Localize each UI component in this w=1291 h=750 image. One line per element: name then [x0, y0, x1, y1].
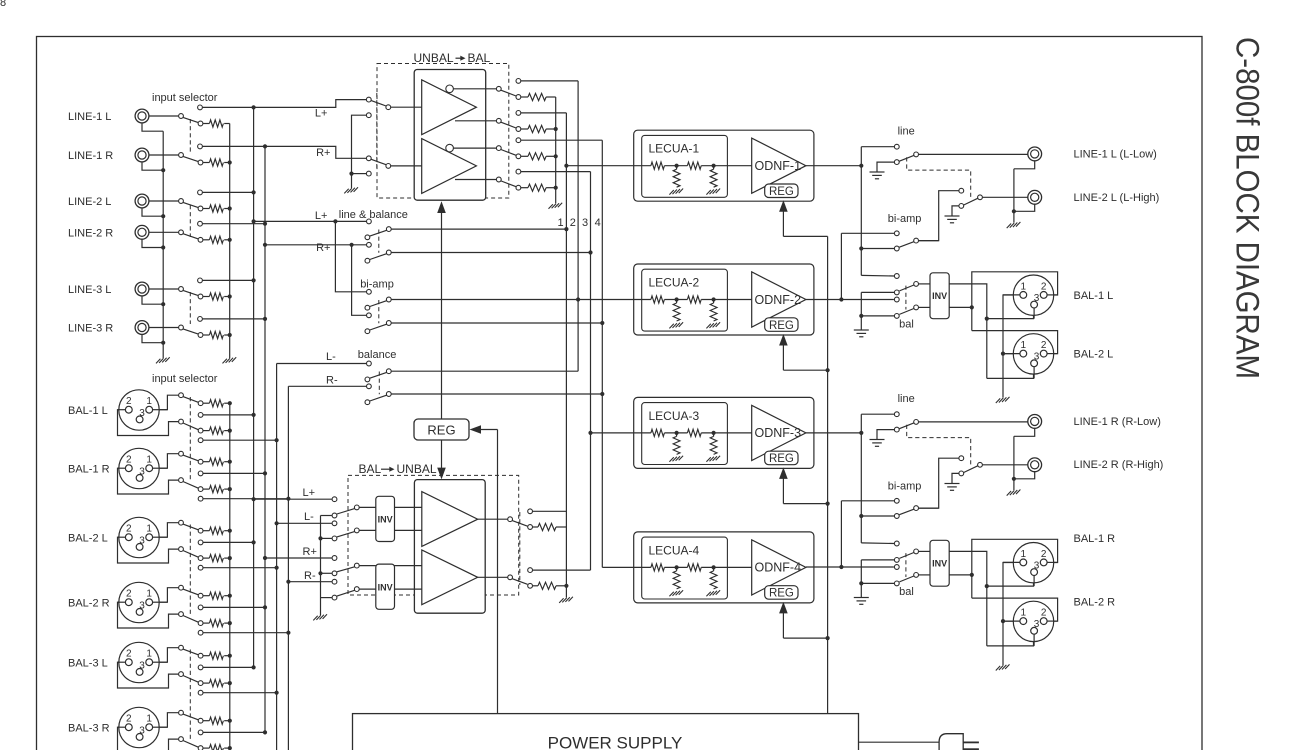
- junction B2U gbus2: [318, 571, 322, 575]
- wire BAL-1 R aux1 to bus: [203, 472, 265, 474]
- wire BAL-3 L res2 to bus: [224, 682, 230, 684]
- junction U2B res bus: [554, 127, 558, 131]
- ground LECUA-4 shunt2: [706, 592, 710, 597]
- junction LECUA-3 shunt1: [675, 431, 679, 435]
- switch outR bal blade2: [899, 576, 914, 582]
- op-amp ODNF-3: [752, 405, 806, 460]
- wire LECUA-1 in segment: [634, 165, 651, 167]
- wire outR jack2 c2 gnd: [952, 473, 959, 483]
- wire LINE-3 R to resistor: [203, 334, 209, 336]
- op-amp B2U triangle1: [422, 492, 478, 547]
- switch balance L pole: [386, 369, 391, 374]
- wire outL biamp c2 stub: [861, 248, 894, 250]
- switch balance L blade: [370, 372, 387, 378]
- wire LINE-3 L sleeve: [142, 296, 163, 304]
- svg-text:3: 3: [139, 725, 145, 736]
- jack LINE-3 R: [135, 321, 149, 335]
- arrow into REG: [470, 425, 482, 434]
- wire B2U outR res to fb1: [556, 585, 566, 587]
- resistor LINE-3 L: [209, 293, 223, 300]
- wire outL pin1 xlr2: [1003, 353, 1020, 355]
- wire U2B in R pole to amp: [391, 165, 422, 167]
- wire BAL-2 R res2: [203, 622, 209, 624]
- dashed box UNBAL-BAL: [377, 64, 509, 199]
- svg-text:LECUA-2: LECUA-2: [649, 276, 700, 290]
- junction outR odnf out: [859, 431, 863, 435]
- junction bal res bus: [228, 401, 232, 405]
- connector XLR1 outR: [1013, 543, 1053, 583]
- connector BAL-3 R: [119, 707, 159, 747]
- wire outR xlr2 pin2 stub: [1047, 620, 1058, 622]
- svg-text:LINE-1 L: LINE-1 L: [68, 111, 111, 123]
- switch LINE-3 R selector pole: [179, 325, 184, 330]
- switch BAL-2 L blade2: [183, 551, 198, 558]
- switch B2U outR blade: [512, 579, 527, 585]
- junction sleeve bus: [161, 341, 165, 345]
- svg-text:UNBAL: UNBAL: [414, 51, 454, 65]
- wire REG to B2U: [441, 440, 443, 468]
- switch BAL-2 R contact1: [198, 593, 203, 598]
- wire U2B out2 to resistor: [521, 128, 528, 130]
- switch BAL-1 L blade2: [183, 423, 198, 430]
- switch LINE-3 R selector blade: [183, 329, 198, 334]
- switch bi-amp R blade: [370, 324, 387, 330]
- wire outL pin1 chain: [1003, 295, 1020, 398]
- resistor LECUA-4 shunt2: [710, 571, 717, 589]
- jack LINE-1 L: [135, 109, 149, 123]
- junction LECUA-2 shunt2: [712, 297, 716, 301]
- junction bi-amp R out: [600, 321, 604, 325]
- svg-text:bal: bal: [899, 319, 914, 331]
- ground outR sleeve: [1007, 491, 1011, 496]
- switch BAL-3 L blade2: [183, 676, 198, 683]
- ground outR xlr: [996, 666, 1000, 671]
- wire B2U pole3 to INV2: [359, 565, 375, 567]
- switch U2B out1 pole: [496, 86, 501, 91]
- junction outL sleeve: [1012, 209, 1016, 213]
- wire BAL-1 R pin1 to pole1: [150, 454, 179, 469]
- ground outL bal: [854, 329, 869, 331]
- svg-text:ODNF-2: ODNF-2: [755, 293, 802, 307]
- wire outR pin2 rect2: [972, 598, 1058, 621]
- wire LINE-3 R aux to bus: [203, 318, 265, 320]
- switch B2U outR contact: [528, 583, 533, 588]
- switch BAL-3 L contact1: [198, 653, 203, 658]
- junction R+ at bus: [263, 144, 267, 148]
- inverter INV2 box: [376, 564, 395, 609]
- wire U2B out row2: [455, 120, 496, 122]
- switch LINE-2 L selector contact: [198, 206, 203, 211]
- junction L+ biamp tap: [333, 219, 337, 223]
- wire BAL-3 L pin1 to pole1: [150, 648, 179, 663]
- junction R+ mid: [263, 243, 267, 247]
- wire U2B out2 upper to fb bus: [521, 112, 566, 114]
- svg-text:C-800f BLOCK DIAGRAM: C-800f BLOCK DIAGRAM: [1230, 37, 1266, 379]
- junction sleeve bus: [161, 302, 165, 306]
- wire BAL-3 R pin1 stub: [153, 726, 168, 728]
- wire LINE-2 R sleeve: [142, 239, 163, 247]
- svg-text:R+: R+: [316, 242, 330, 254]
- junction LECUA-3 shunt2: [712, 431, 716, 435]
- junction bal res bus: [228, 654, 232, 658]
- wire BAL-1 L pin2 loop to pole2: [118, 410, 179, 436]
- svg-text:3: 3: [139, 535, 145, 546]
- regulator REG box: [414, 419, 469, 440]
- arrow ODNF-2 reg: [779, 334, 788, 346]
- wire outR line feed: [861, 413, 894, 415]
- switch bi-amp L pole: [386, 297, 391, 302]
- resistor LINE-2 R: [209, 236, 223, 243]
- wire outR bal gnd stub2: [861, 582, 894, 584]
- gang dashed line input selector: [189, 292, 191, 324]
- junction aux2 bus: [286, 497, 290, 501]
- ground LECUA-2 shunt2: [706, 324, 710, 329]
- resistor LECUA-2 shunt2: [710, 303, 717, 321]
- switch BAL-3 L aux2 contact: [198, 690, 203, 695]
- junction bi-amp L fb2: [576, 297, 580, 301]
- svg-text:bi-amp: bi-amp: [888, 481, 922, 493]
- resistor LECUA-2 shunt1: [673, 303, 680, 321]
- switch outR line c2: [894, 427, 899, 432]
- switch outL jack2 c1: [959, 188, 964, 193]
- wire L- bal: [277, 522, 332, 524]
- svg-text:UNBAL: UNBAL: [397, 462, 437, 476]
- wire outL pin3 xlr1: [987, 308, 1034, 319]
- junction LECUA-4 shunt2: [712, 565, 716, 569]
- wire U2B res2 to bus: [546, 128, 556, 130]
- wire U2B out row4: [455, 179, 496, 181]
- junction outL odnf out: [859, 164, 863, 168]
- wire outL bal gnd bus: [860, 292, 862, 330]
- wire BAL-2 L pin2 stub: [118, 536, 126, 538]
- wire U2B out4 to resistor: [521, 187, 528, 189]
- wire BAL-3 R res2 to bus: [224, 747, 230, 749]
- svg-text:L+: L+: [315, 108, 328, 120]
- switch BAL-2 L aux2 contact: [198, 565, 203, 570]
- gang dashed line bal selector: [189, 397, 191, 482]
- wire BAL-3 L pin2 loop to pole2: [118, 662, 179, 688]
- switch outL bal c top: [894, 274, 899, 279]
- resistor LINE-1 L: [209, 120, 223, 127]
- switch balance L free contact: [365, 377, 370, 382]
- wire LECUA-2 shunt2 lead: [713, 300, 715, 304]
- switch LINE-2 R selector blade: [183, 234, 198, 239]
- block LECUA-1 inner box: [642, 135, 728, 197]
- switch outL line c2: [894, 160, 899, 165]
- wire LECUA-2 mid1: [664, 299, 687, 301]
- ground outL jack2 sw: [945, 215, 960, 217]
- wire outL jack2 c1 feed: [919, 191, 959, 241]
- wire LINE-2 L to selector: [149, 200, 179, 202]
- wire outL pin2 rect2: [972, 331, 1058, 354]
- resistor U2B out4: [528, 184, 546, 191]
- wire B2U outR res: [533, 585, 538, 587]
- wire line resistor bus: [229, 124, 231, 359]
- wire L+ to biamp contact: [335, 221, 366, 291]
- wire BAL-2 R res1: [203, 595, 209, 597]
- inverter INV outL: [930, 273, 949, 319]
- wire B2U pole4 to INV2: [359, 588, 375, 590]
- wire LINE-3 L resistor to bus: [224, 296, 230, 298]
- switch BAL-1 L pole2: [179, 419, 184, 424]
- wire outL line c2 gnd: [877, 162, 894, 172]
- wire fb bus4: [601, 140, 603, 567]
- junction U2B res bus: [554, 154, 558, 158]
- switch outR bal c2: [894, 558, 899, 563]
- switch LINE-1 R aux contact: [198, 144, 203, 149]
- switch outL jack2 pole: [978, 195, 983, 200]
- svg-text:LINE-2 L: LINE-2 L: [68, 196, 111, 208]
- wire BAL-3 R res2: [203, 747, 209, 749]
- switch B2U in2 blade: [337, 532, 355, 537]
- svg-text:line: line: [898, 125, 915, 137]
- switch outL bal blade1: [899, 285, 914, 291]
- gang dashed balance: [378, 372, 380, 395]
- switch U2B out3 pole: [496, 146, 501, 151]
- junction aux1 bus: [263, 730, 267, 734]
- ground LECUA-1 shunt1: [669, 190, 673, 195]
- wire bal resistor bus: [229, 403, 231, 750]
- resistor BAL-2 R r1: [209, 592, 223, 599]
- junction aux2 bus: [286, 631, 290, 635]
- wire BAL-1 L aux1 to bus: [203, 414, 253, 416]
- resistor LECUA-3 shunt1: [673, 436, 680, 454]
- switch B2U in1 bottom contact: [332, 513, 337, 518]
- svg-text:LINE-2 R: LINE-2 R: [68, 227, 113, 239]
- wire outL pin2 rect1: [972, 272, 1058, 331]
- ground line resistor bus: [223, 359, 227, 364]
- switch outR bal blade1: [899, 553, 914, 559]
- wire LINE-1 R resistor to bus: [224, 162, 230, 164]
- wire LECUA-3 in segment: [634, 432, 651, 434]
- resistor BAL-2 L r1: [209, 527, 223, 534]
- wire LINE-1 R to selector: [149, 154, 179, 156]
- svg-text:POWER SUPPLY: POWER SUPPLY: [548, 734, 683, 750]
- switch outR bal c top: [894, 541, 899, 546]
- wire BAL-1 L pin2 stub: [118, 409, 126, 411]
- junction bal res bus: [228, 487, 232, 491]
- switch outL biamp blade: [899, 242, 914, 248]
- switch outR line c1: [894, 412, 899, 417]
- wire R+ to biamp contact: [352, 245, 367, 315]
- switch B2U outR pole: [508, 575, 513, 580]
- wire outR xlr2 pin1 stub: [1003, 620, 1020, 622]
- switch LINE-1 L selector blade: [183, 117, 198, 122]
- jack LINE-2 R out: [1028, 458, 1042, 472]
- switch outL bal c4: [894, 314, 899, 319]
- svg-text:BAL: BAL: [468, 51, 491, 65]
- switch BAL-2 L blade1: [183, 524, 198, 530]
- switch outR bal c3: [894, 565, 899, 570]
- wire LECUA-2 in segment: [634, 299, 651, 301]
- wire B2U ground bus: [320, 516, 322, 616]
- switch BAL-1 L blade1: [183, 397, 198, 403]
- svg-text:R+: R+: [316, 147, 330, 159]
- switch balance R contact: [367, 384, 372, 389]
- svg-text:ODNF-4: ODNF-4: [755, 561, 802, 575]
- switch LINE-1 L selector contact: [198, 121, 203, 126]
- wire outL xlr2 pin1 stub: [1003, 353, 1020, 355]
- resistor B2U outL: [538, 523, 556, 530]
- wire ODNF-3 reg feed h: [783, 503, 827, 505]
- wire outL xlr1 pin1 stub: [1003, 294, 1020, 296]
- wire outL jack2 pole to jack: [983, 196, 1028, 198]
- junction bal res bus: [228, 746, 232, 750]
- wire outL biamp c1 feed: [841, 232, 894, 234]
- svg-text:8: 8: [0, 0, 6, 9]
- arrow ODNF-1 reg: [779, 200, 788, 212]
- wire reg supply vertical: [827, 236, 829, 713]
- svg-text:2: 2: [570, 217, 576, 229]
- switch U2B out1 contact: [516, 95, 521, 100]
- wire outR biamp c1 feed: [841, 500, 894, 502]
- wire R+ mid: [265, 244, 366, 246]
- svg-text:bal: bal: [899, 586, 914, 598]
- svg-text:LECUA-3: LECUA-3: [649, 409, 700, 423]
- svg-text:LINE-1 R (R-Low): LINE-1 R (R-Low): [1074, 416, 1161, 428]
- junction aux1 bus: [252, 540, 256, 544]
- switch B2U in3 bottom contact: [332, 571, 337, 576]
- wire LINE-3 R resistor to bus: [224, 334, 230, 336]
- svg-text:REG: REG: [769, 588, 794, 600]
- wire R- bal: [288, 581, 332, 583]
- svg-text:INV: INV: [932, 558, 947, 568]
- wire ODNF-4 reg feed: [782, 612, 784, 638]
- switch LINE-3 L selector pole: [179, 287, 184, 292]
- switch outL jack2 blade: [964, 198, 978, 205]
- gang dashed line bal selector: [189, 525, 191, 616]
- wire LINE-2 L aux to bus: [203, 191, 254, 193]
- wire LECUA-3 input: [591, 432, 635, 434]
- switch bi-amp R pole: [386, 321, 391, 326]
- switch outR biamp c1: [894, 498, 899, 503]
- svg-text:INV: INV: [932, 291, 947, 301]
- wire BAL-3 L res2: [203, 682, 209, 684]
- wire BAL-2 R aux1 to bus: [203, 606, 265, 608]
- svg-text:2: 2: [126, 524, 132, 535]
- switch bi-amp R contact: [367, 313, 372, 318]
- switch U2B out4 contact: [516, 185, 521, 190]
- wire outR pole to jack1: [919, 421, 1028, 423]
- wire outR sleeve bus: [1013, 436, 1015, 490]
- ground LECUA-2 shunt1: [669, 324, 673, 329]
- wire outL jack2 c2 gnd: [952, 206, 959, 216]
- gang dashed line input selector: [189, 205, 191, 237]
- switch B2U in3 top contact: [332, 556, 337, 561]
- wire L+ mid: [254, 220, 367, 222]
- resistor BAL-2 R r2: [209, 620, 223, 627]
- wire outR biamp vert: [840, 501, 842, 567]
- wire B2U outL res to fb1: [556, 526, 566, 528]
- wire BAL-2 L pin1 stub: [153, 536, 168, 538]
- wire outR xlr1 pin2 stub: [1047, 561, 1058, 563]
- wire BAL-1 R res2: [203, 488, 209, 490]
- junction outL pin3 chain: [985, 317, 989, 321]
- svg-text:INV: INV: [378, 582, 393, 592]
- switch BAL-2 R contact2: [198, 621, 203, 626]
- wire LECUA-4 input: [602, 566, 634, 568]
- regulator ODNF-2 REG box: [765, 318, 798, 332]
- wire REG vertical upper: [441, 213, 443, 419]
- wire outL INV bottom chain: [949, 306, 972, 308]
- wire LECUA-3 shunt1 lead: [676, 433, 678, 437]
- wire bus R+: [264, 146, 266, 732]
- junction balance R out: [600, 392, 604, 396]
- jack LINE-1 R: [135, 148, 149, 162]
- junction aux2 bus: [275, 438, 279, 442]
- svg-text:1: 1: [1021, 340, 1027, 351]
- wire balance L pole out: [391, 370, 578, 372]
- wire LINE-1 L sleeve: [142, 123, 163, 131]
- wire ODNF-1 out: [806, 165, 861, 167]
- jack LINE-1 L out: [1028, 147, 1042, 161]
- switch B2U in2 bottom contact: [332, 536, 337, 541]
- switch U2B out1 upper contact: [516, 79, 521, 84]
- svg-text:BAL-1 L: BAL-1 L: [1074, 290, 1114, 302]
- gang dashed outL bal: [905, 286, 907, 310]
- wire outR pin2 rect1: [972, 539, 1058, 598]
- switch BAL-2 R aux2 contact: [198, 630, 203, 635]
- wire LINE-3 L to selector: [149, 288, 179, 290]
- resistor LECUA-3 series1: [651, 429, 665, 436]
- wire BAL-3 R pin2 loop to pole2: [118, 727, 179, 750]
- wire LECUA-1 shunt1 lead: [676, 166, 678, 170]
- svg-text:balance: balance: [358, 349, 397, 361]
- resistor LECUA-4 shunt1: [673, 571, 680, 589]
- wire U2B in L pole to amp: [391, 106, 422, 108]
- resistor LECUA-2 series1: [651, 296, 665, 303]
- connector BAL-1 R: [119, 448, 159, 488]
- svg-text:REG: REG: [769, 453, 794, 465]
- switch l&b L pole: [386, 227, 391, 232]
- jack LINE-2 L: [135, 194, 149, 208]
- switch LINE-1 R selector contact: [198, 160, 203, 165]
- switch B2U outR upper contact: [528, 568, 533, 573]
- switch BAL-1 R blade2: [183, 482, 198, 489]
- op-amp ODNF-2: [752, 272, 806, 327]
- switch B2U in3 blade: [337, 567, 355, 572]
- junction outR pin2 chain: [970, 573, 974, 577]
- switch B2U in4 bottom contact: [332, 595, 337, 600]
- svg-text:REG: REG: [427, 423, 455, 438]
- svg-text:INV: INV: [378, 515, 393, 525]
- jack LINE-1 R out: [1028, 415, 1042, 429]
- switch B2U in2 pole: [354, 528, 359, 533]
- op-amp ODNF-1: [752, 138, 806, 193]
- svg-text:1: 1: [1021, 281, 1027, 292]
- wire outR pole2 to INV: [919, 574, 930, 576]
- switch outL bal c2: [894, 290, 899, 295]
- svg-text:REG: REG: [769, 186, 794, 198]
- jack LINE-2 L out: [1028, 190, 1042, 204]
- wire B2U pole2 to INV1: [359, 529, 375, 531]
- wire BAL-1 R pin2 loop to pole2: [118, 468, 179, 494]
- junction reg supply: [826, 368, 830, 372]
- switch B2U in1 blade: [337, 509, 355, 514]
- switch outL bal pole1: [914, 282, 919, 287]
- switch LINE-1 R selector pole: [179, 153, 184, 158]
- junction aux2 bus: [275, 566, 279, 570]
- switch LINE-3 R selector contact: [198, 333, 203, 338]
- wire BAL-3 L res1 to bus: [224, 655, 230, 657]
- resistor BAL-3 L r2: [209, 680, 223, 687]
- wire PS to REG vertical: [497, 430, 499, 714]
- wire BAL-3 R aux1 to bus: [203, 731, 265, 733]
- wire LECUA-3 mid2: [701, 432, 752, 434]
- gang dashed line bal selector: [189, 650, 191, 741]
- switch outR biamp c2: [894, 514, 899, 519]
- resistor BAL-3 R r1: [209, 717, 223, 724]
